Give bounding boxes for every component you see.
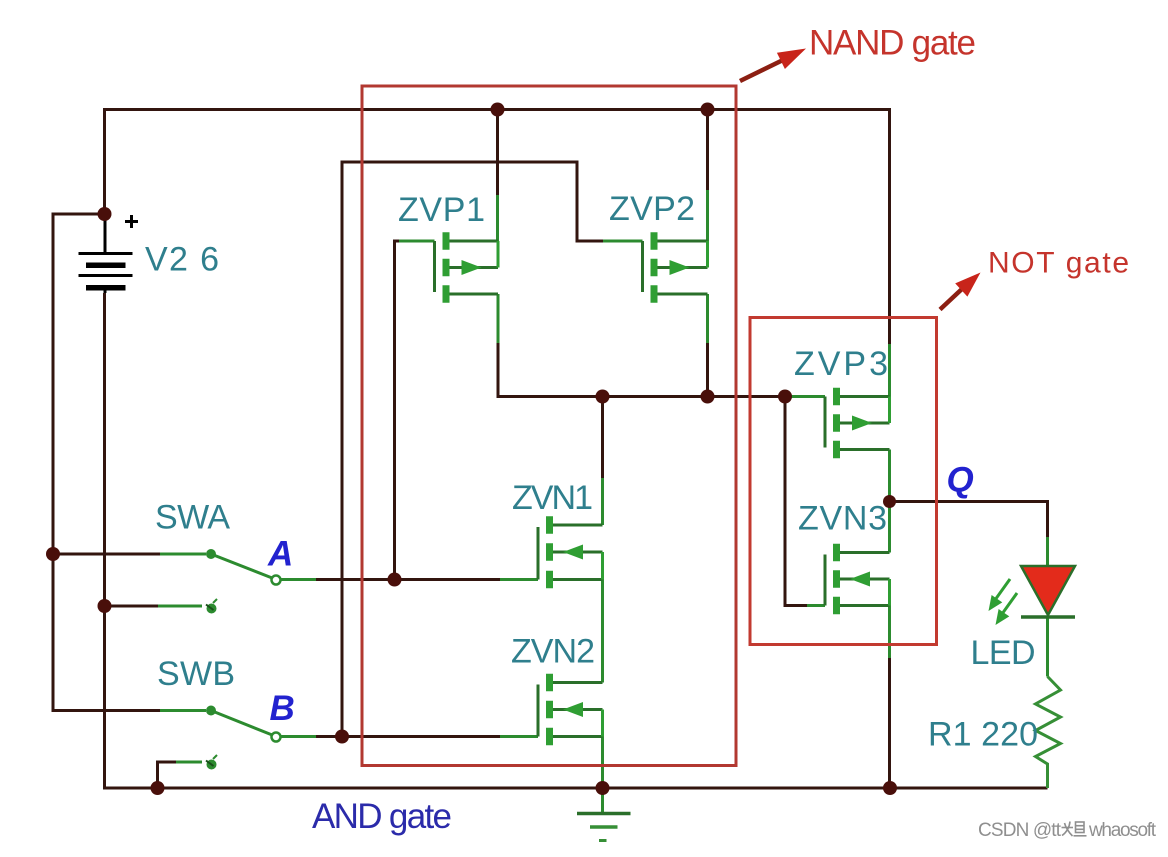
svg-text:AND gate: AND gate [312, 797, 452, 836]
junction dot VDD ZVP2 [701, 103, 715, 117]
wire LED cathode to resistor R1 [1046, 617, 1049, 677]
watermark CSDN [978, 820, 1157, 841]
NOT gate callout arrow [940, 273, 981, 310]
svg-text:R1 220: R1 220 [928, 716, 1038, 754]
wire node A from switch SWA [276, 578, 316, 581]
wire ZVP2 drain from VDD [706, 110, 709, 191]
svg-text:Q: Q [947, 461, 974, 500]
wire ZVP1 source stub [497, 294, 500, 343]
junction dot GND ZVN3 [883, 781, 897, 795]
svg-text:ZVN1: ZVN1 [512, 479, 593, 517]
junction dot GND SWB [151, 781, 165, 795]
wire battery plus branch to switches [53, 214, 160, 711]
wire NAND output to ZVP3 gate [785, 395, 825, 398]
svg-text:V2 6: V2 6 [145, 241, 219, 279]
NOT gate red box [750, 318, 937, 645]
NAND gate callout arrow [740, 49, 806, 82]
svg-text:SWB: SWB [157, 655, 235, 693]
wire node A up to ZVP1 gate [395, 241, 400, 580]
wire NAND output node [498, 343, 785, 397]
svg-text:SWA: SWA [155, 499, 230, 537]
svg-text:NAND gate: NAND gate [809, 24, 976, 63]
wire SWA feed [53, 553, 160, 556]
svg-text:LED: LED [971, 634, 1036, 672]
transistor ZVP1 [435, 232, 499, 303]
junction dot node B [335, 730, 349, 744]
resistor R1 [1036, 677, 1061, 789]
wire SWB lower throw stub [158, 762, 177, 788]
transistor ZVN1 [538, 516, 603, 588]
switch SWB [206, 706, 281, 770]
transistor ZVN3 [825, 544, 890, 615]
wire ZVP3 gate node down to ZVN3 gate [785, 397, 807, 606]
junction dot node Q [883, 495, 896, 508]
junction dot NAND out ZVP2 [701, 390, 715, 404]
junction dot SWA lower stub [98, 599, 112, 613]
wire SWA lower throw stub [105, 605, 159, 608]
svg-text:ZVN3: ZVN3 [798, 500, 887, 538]
switch SWA [206, 549, 281, 614]
junction dot battery plus [98, 207, 112, 221]
wire SWA feed green stub [160, 553, 206, 556]
svg-text:CSDN @tt: CSDN @tt [978, 820, 1062, 841]
wire node Q to ZVN3 drain [888, 502, 891, 553]
svg-text:whaosoft: whaosoft [1088, 820, 1157, 841]
wire ZVP2 source stub [706, 294, 709, 343]
svg-text:NOT gate: NOT gate [988, 247, 1129, 280]
transistor ZVN2 [538, 674, 603, 746]
transistor ZVP3 [825, 388, 890, 459]
junction dot NAND out ZVP3 gate [778, 390, 792, 404]
junction dot GND ZVN2 [596, 781, 610, 795]
battery V2 [79, 214, 139, 293]
wire ZVP1 drain from VDD [496, 110, 499, 196]
junction dot NAND out ZVN1 [596, 390, 610, 404]
NAND gate red box [362, 86, 736, 766]
wire node B from switch SWB [276, 735, 316, 738]
wire ZVN1 source to ZVN2 drain [601, 580, 604, 683]
wire node A to ZVN1 gate [395, 578, 501, 581]
wire node B loop to ZVP2 gate [342, 162, 603, 737]
wire VDD rail top with left and right verticals [105, 110, 890, 345]
wire ZVP3 drain to node Q [888, 450, 891, 502]
junction dot SWA branch [46, 547, 60, 561]
wire node B to ZVN2 gate [342, 735, 500, 738]
wire ZVN3 source to ground rail [888, 606, 891, 659]
LED D1 [989, 566, 1076, 625]
wire ZVN2 source to ground rail [601, 737, 604, 789]
wire node Q to LED [890, 502, 1048, 538]
svg-text:B: B [270, 689, 295, 728]
junction dot node A [388, 573, 402, 587]
wire ZVN1 drain from NAND output [601, 397, 604, 479]
svg-text:ZVP2: ZVP2 [609, 190, 695, 228]
svg-text:ZVP1: ZVP1 [398, 191, 485, 229]
ground [577, 788, 631, 841]
svg-text:ZVN2: ZVN2 [511, 633, 595, 671]
wire SWB feed green stub [160, 709, 206, 712]
transistor ZVP2 [643, 232, 708, 303]
wire ZVP3 source from VDD [888, 344, 891, 397]
junction dot VDD ZVP1 [491, 103, 505, 117]
wire battery negative down left side and bottom GND rail [105, 293, 1048, 788]
svg-text:A: A [267, 535, 293, 574]
